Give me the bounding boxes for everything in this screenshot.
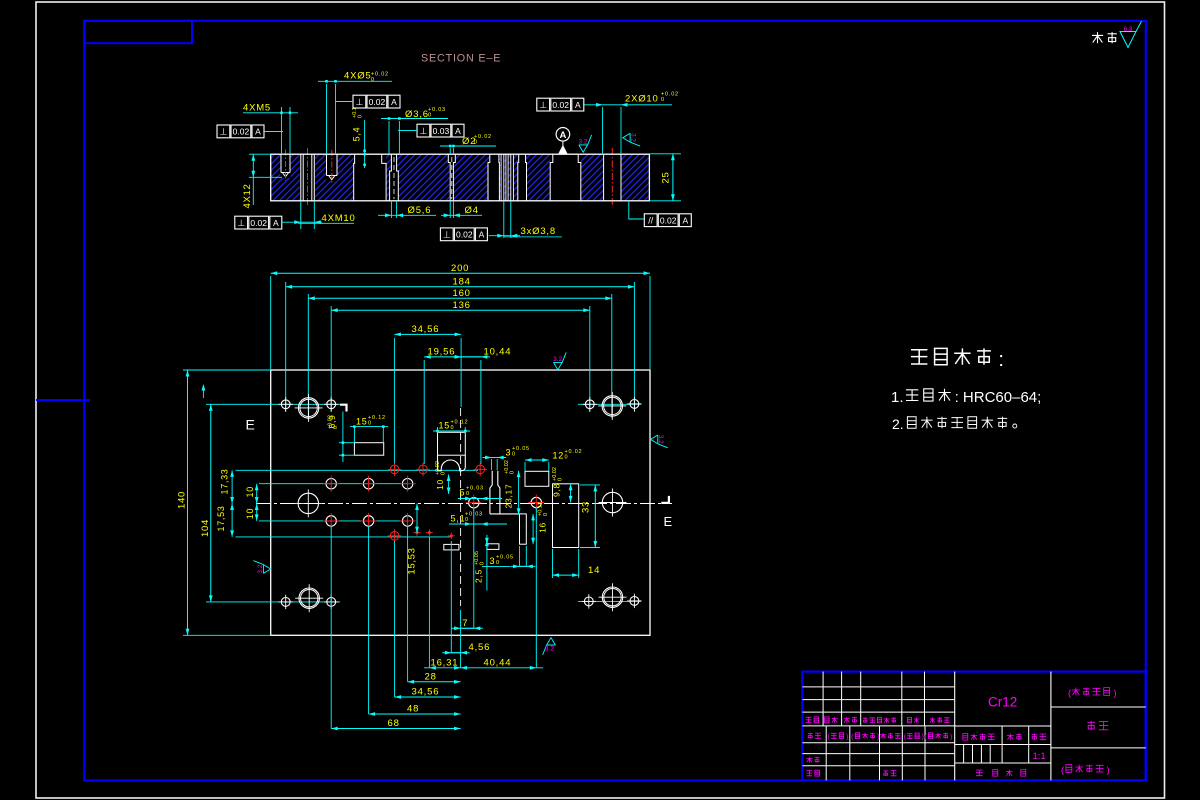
svg-text:4,56: 4,56 [469, 642, 491, 653]
svg-text:0: 0 [358, 115, 364, 118]
svg-text:0: 0 [510, 471, 516, 474]
svg-text:28: 28 [425, 671, 437, 682]
svg-text:0.02: 0.02 [660, 215, 677, 225]
svg-text:Ø3,6: Ø3,6 [405, 109, 429, 120]
svg-text:0.02: 0.02 [233, 127, 250, 137]
svg-text:3.2: 3.2 [553, 356, 562, 363]
svg-text:3: 3 [490, 556, 496, 566]
svg-text:25: 25 [661, 172, 672, 184]
svg-text:10: 10 [435, 479, 445, 490]
svg-text:7: 7 [462, 618, 468, 629]
svg-text:3xØ3,8: 3xØ3,8 [521, 226, 556, 237]
svg-text:104: 104 [200, 519, 211, 537]
svg-text://: // [648, 215, 654, 225]
svg-text:): ) [1107, 765, 1110, 776]
svg-text:A: A [575, 100, 581, 110]
svg-text:10,44: 10,44 [484, 346, 512, 357]
svg-text:15,53: 15,53 [407, 547, 418, 574]
svg-text:0: 0 [466, 491, 470, 497]
svg-text:2,5: 2,5 [473, 569, 483, 583]
svg-text:15: 15 [356, 416, 368, 426]
svg-text:A: A [682, 215, 688, 225]
svg-text:⊥: ⊥ [355, 97, 363, 107]
svg-text:2.: 2. [892, 416, 904, 432]
svg-text:0: 0 [543, 513, 549, 516]
svg-text:0: 0 [496, 560, 500, 566]
svg-text::: : [998, 349, 1004, 371]
svg-text:A: A [559, 130, 566, 141]
svg-text:4XM5: 4XM5 [243, 103, 271, 114]
svg-text:34,56: 34,56 [412, 324, 440, 335]
svg-text:4XØ5: 4XØ5 [344, 71, 372, 82]
svg-text:): ) [950, 734, 952, 741]
svg-text:3: 3 [506, 448, 512, 458]
svg-text:14: 14 [588, 565, 600, 576]
svg-text:16: 16 [538, 522, 548, 533]
svg-text:0: 0 [441, 472, 447, 475]
svg-text:): ) [877, 734, 879, 741]
svg-text:19,56: 19,56 [428, 346, 456, 357]
svg-text:): ) [846, 734, 848, 741]
svg-text:3.2: 3.2 [545, 646, 554, 653]
svg-text:5,1: 5,1 [451, 513, 466, 523]
svg-text:A: A [391, 97, 397, 107]
svg-text:0.02: 0.02 [369, 97, 386, 107]
svg-text:1:1: 1:1 [1033, 751, 1046, 762]
svg-text:E: E [664, 514, 673, 529]
svg-text:10: 10 [245, 508, 255, 519]
svg-text:0: 0 [661, 97, 665, 103]
svg-text:48: 48 [407, 703, 419, 714]
svg-text:12: 12 [553, 451, 565, 461]
svg-text:140: 140 [177, 491, 188, 509]
svg-text:0.03: 0.03 [433, 126, 450, 136]
svg-text:⊥: ⊥ [443, 230, 451, 240]
svg-text:⊥: ⊥ [419, 126, 427, 136]
svg-text:4X12: 4X12 [242, 184, 253, 209]
svg-text:0.02: 0.02 [250, 218, 267, 228]
svg-text:160: 160 [453, 288, 471, 299]
svg-text:0: 0 [565, 455, 569, 461]
svg-text:): ) [1114, 688, 1117, 699]
svg-text:A: A [273, 218, 279, 228]
svg-text:Ø4: Ø4 [465, 205, 479, 216]
svg-text:136: 136 [453, 300, 471, 311]
svg-text:⊥: ⊥ [219, 127, 227, 137]
svg-text:Ø5,6: Ø5,6 [408, 205, 432, 216]
svg-text:E: E [246, 417, 255, 433]
svg-text:33: 33 [581, 501, 592, 513]
svg-text:23,17: 23,17 [504, 484, 514, 509]
svg-text:A: A [255, 127, 261, 137]
svg-text:0: 0 [333, 426, 339, 429]
svg-text:0: 0 [479, 562, 485, 565]
svg-text:16,31: 16,31 [431, 657, 459, 668]
svg-text:0: 0 [474, 140, 478, 146]
svg-text:2XØ10: 2XØ10 [625, 94, 659, 105]
svg-text:17,53: 17,53 [216, 505, 226, 531]
svg-text:0.02: 0.02 [456, 230, 473, 240]
svg-text:5: 5 [460, 488, 466, 498]
svg-text:0: 0 [558, 478, 564, 481]
svg-text:⊥: ⊥ [237, 218, 245, 228]
svg-text:68: 68 [388, 718, 400, 729]
svg-text:Cr12: Cr12 [988, 695, 1017, 710]
svg-text:0: 0 [512, 452, 516, 458]
svg-text:17,33: 17,33 [220, 468, 230, 494]
svg-text:0: 0 [465, 517, 469, 523]
svg-text:5,4: 5,4 [352, 127, 362, 142]
svg-text:200: 200 [451, 263, 469, 274]
svg-text:A: A [479, 230, 485, 240]
svg-text:0: 0 [428, 113, 432, 119]
svg-text:10: 10 [245, 486, 255, 497]
svg-text:⊥: ⊥ [539, 100, 547, 110]
svg-text:34,56: 34,56 [412, 687, 440, 698]
svg-text:1.: 1. [891, 389, 904, 406]
svg-text:0: 0 [371, 77, 375, 83]
svg-text:SECTION E–E: SECTION E–E [421, 53, 501, 65]
svg-text:40,44: 40,44 [484, 657, 512, 668]
svg-text:15: 15 [439, 421, 451, 431]
svg-text:0: 0 [451, 425, 455, 431]
svg-text:9,8: 9,8 [552, 483, 562, 497]
svg-text:3.2: 3.2 [257, 564, 264, 573]
svg-text:3.2: 3.2 [657, 435, 664, 444]
svg-text:0.02: 0.02 [552, 100, 569, 110]
svg-text:6.3: 6.3 [1124, 26, 1133, 33]
svg-text:3.2: 3.2 [579, 139, 588, 146]
svg-text:4XM10: 4XM10 [322, 213, 356, 224]
svg-text:A: A [455, 126, 461, 136]
svg-text:184: 184 [453, 277, 471, 288]
svg-text:0: 0 [368, 421, 372, 427]
svg-text:: HRC60–64;: : HRC60–64; [955, 389, 1042, 406]
svg-text:3.2: 3.2 [629, 133, 636, 142]
